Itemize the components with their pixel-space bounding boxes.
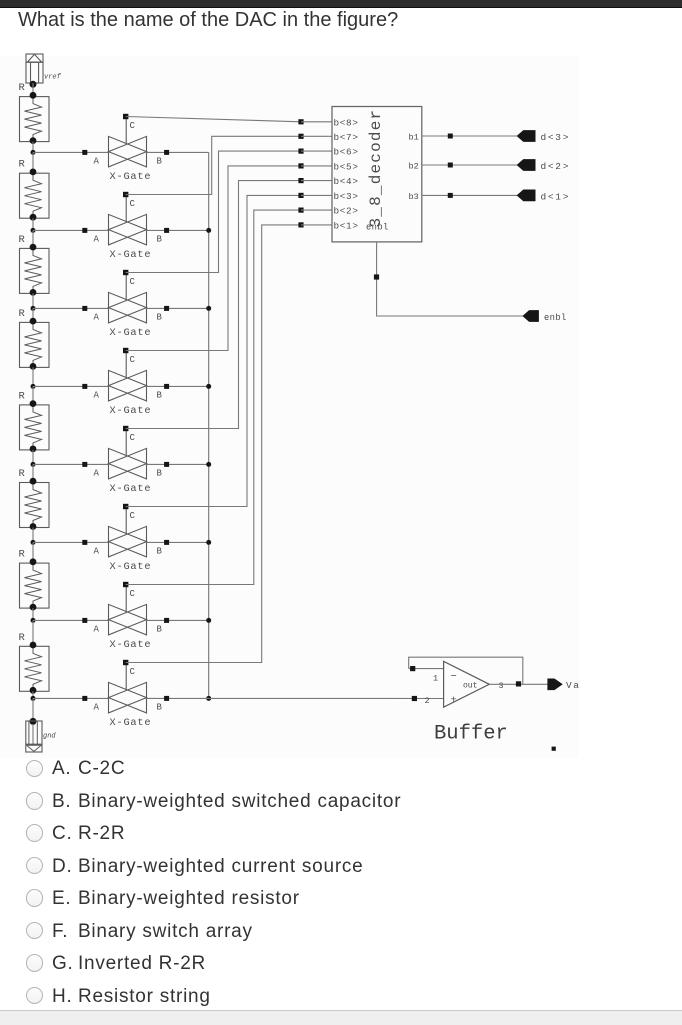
wire b2 <box>422 164 518 166</box>
wire C4 to b<5> <box>126 166 301 351</box>
wire feedback <box>409 657 523 684</box>
wire C7 to b<2> <box>126 210 301 584</box>
wire <box>32 450 34 465</box>
wire C8 to b<1> <box>126 225 301 663</box>
svg-text:d<2>: d<2> <box>541 161 571 172</box>
svg-text:R: R <box>19 308 26 320</box>
svg-text:b3: b3 <box>409 192 419 202</box>
svg-text:B: B <box>157 156 163 166</box>
svg-text:b<1>: b<1> <box>334 221 359 232</box>
svg-text:A: A <box>94 468 100 478</box>
svg-text:X-Gate: X-Gate <box>110 405 152 417</box>
ground <box>26 718 57 752</box>
resistor R1 <box>19 82 50 144</box>
svg-text:R: R <box>19 82 26 94</box>
junction <box>206 228 211 233</box>
svg-text:R: R <box>19 234 26 246</box>
svg-text:b<2>: b<2> <box>334 206 359 217</box>
junction <box>82 462 87 467</box>
svg-text:d<1>: d<1> <box>541 192 571 203</box>
svg-text:R: R <box>19 468 26 480</box>
resistor R5 <box>19 390 50 452</box>
pin enbl <box>523 311 538 322</box>
wire <box>301 209 332 211</box>
wire <box>32 218 34 230</box>
svg-text:3: 3 <box>499 681 504 691</box>
pin C2 <box>123 192 128 197</box>
svg-text:X-Gate: X-Gate <box>110 171 152 183</box>
wire C2 to b<7> <box>126 136 301 194</box>
junction <box>206 696 211 701</box>
wire A tap7 <box>33 619 109 621</box>
svg-text:X-Gate: X-Gate <box>110 561 152 573</box>
op-amp U2 <box>425 661 504 707</box>
junction <box>164 540 169 545</box>
wire out <box>489 683 548 685</box>
wire <box>32 542 34 563</box>
wire A tap5 <box>33 463 109 465</box>
x-gate XG8 <box>94 663 163 729</box>
wire C6 to b<3> <box>126 195 301 506</box>
pin d&lt;3&gt; <box>517 131 535 142</box>
svg-text:A: A <box>94 624 100 634</box>
wire <box>32 608 34 620</box>
svg-text:C: C <box>130 355 136 365</box>
svg-text:Buffer: Buffer <box>434 723 508 746</box>
junction <box>164 696 169 701</box>
wire <box>32 464 34 482</box>
pin C4 <box>123 348 128 353</box>
wire A tap6 <box>33 541 109 543</box>
wire A tap4 <box>33 385 109 387</box>
node vref <box>30 81 37 88</box>
svg-text:X-Gate: X-Gate <box>110 483 152 495</box>
junction <box>516 681 521 686</box>
wire <box>301 224 332 226</box>
wire to op-amp + <box>147 697 444 699</box>
junction <box>82 540 87 545</box>
svg-text:1: 1 <box>433 674 438 684</box>
junction <box>206 618 211 623</box>
junction <box>82 228 87 233</box>
node tap2 <box>31 228 36 233</box>
wire C5 to b<4> <box>126 181 301 429</box>
svg-text:C: C <box>130 121 136 131</box>
wire B2 <box>147 229 209 231</box>
svg-text:X-Gate: X-Gate <box>110 717 152 729</box>
x-gate XG5 <box>94 429 163 495</box>
pin C5 <box>123 426 128 431</box>
wire B4 <box>147 385 209 387</box>
junction <box>164 228 169 233</box>
wire B5 <box>147 463 209 465</box>
junction <box>298 208 303 213</box>
svg-text:X-Gate: X-Gate <box>110 639 152 651</box>
bottom bar <box>0 1010 682 1025</box>
node tap5 <box>31 462 36 467</box>
node tap6 <box>31 540 36 545</box>
junction <box>206 384 211 389</box>
node tap1 <box>31 150 36 155</box>
junction <box>206 540 211 545</box>
decoder U1 3_8_decoder <box>332 107 422 242</box>
svg-text:b<7>: b<7> <box>334 132 359 143</box>
svg-text:A: A <box>94 390 100 400</box>
top bar <box>0 0 682 8</box>
svg-text:B: B <box>157 234 163 244</box>
junction <box>412 696 417 701</box>
question <box>18 9 398 32</box>
junction <box>298 163 303 168</box>
x-gate XG2 <box>94 195 163 261</box>
wire <box>301 180 332 182</box>
wire <box>32 83 34 97</box>
resistor R8 <box>19 632 50 694</box>
node tap8 <box>31 696 36 701</box>
svg-text:b<8>: b<8> <box>334 117 359 128</box>
wire <box>32 230 34 248</box>
svg-text:enbl: enbl <box>544 313 567 323</box>
pin d&lt;1&gt; <box>517 190 535 201</box>
svg-text:B: B <box>157 702 163 712</box>
node tap7 <box>31 618 36 623</box>
svg-text:R: R <box>19 159 26 171</box>
node tap4 <box>31 384 36 389</box>
wire <box>32 152 34 173</box>
x-gate XG6 <box>94 507 163 573</box>
svg-text:Va: Va <box>566 680 580 691</box>
svg-text:B: B <box>157 546 163 556</box>
junction <box>298 193 303 198</box>
x-gate XG4 <box>94 351 163 417</box>
svg-text:b<4>: b<4> <box>334 176 359 187</box>
node tap3 <box>31 306 36 311</box>
svg-text:B: B <box>157 390 163 400</box>
pin d&lt;2&gt; <box>517 160 535 171</box>
svg-text:3_8_decoder: 3_8_decoder <box>367 109 385 228</box>
x-gate XG7 <box>94 585 163 651</box>
junction <box>298 119 303 124</box>
wire <box>32 142 34 153</box>
junction <box>82 306 87 311</box>
svg-text:B: B <box>157 468 163 478</box>
wire <box>32 367 34 386</box>
wire <box>32 620 34 646</box>
pin Va <box>548 679 562 690</box>
wire <box>32 691 34 698</box>
wire B7 <box>147 619 209 621</box>
svg-text:A: A <box>94 702 100 712</box>
svg-text:C: C <box>130 667 136 677</box>
svg-text:2: 2 <box>425 696 430 706</box>
junction <box>164 462 169 467</box>
svg-text:out: out <box>463 682 477 691</box>
wire C3 to b<6> <box>126 151 301 272</box>
svg-text:b1: b1 <box>409 133 419 143</box>
junction <box>206 462 211 467</box>
resistor R6 <box>19 468 50 530</box>
junction <box>206 306 211 311</box>
svg-text:A: A <box>94 312 100 322</box>
resistor R7 <box>19 549 50 611</box>
junction <box>298 222 303 227</box>
stray pin mark <box>552 747 556 751</box>
wire <box>301 135 332 137</box>
wire output bus <box>208 152 210 698</box>
resistor R3 <box>19 234 50 296</box>
resistor R2 <box>19 159 50 221</box>
pin C8 <box>123 660 128 665</box>
svg-text:R: R <box>19 632 26 644</box>
svg-text:X-Gate: X-Gate <box>110 327 152 339</box>
junction <box>374 274 379 279</box>
svg-text:d<3>: d<3> <box>541 132 571 143</box>
svg-text:b2: b2 <box>409 162 419 172</box>
svg-text:C: C <box>130 589 136 599</box>
svg-text:R: R <box>19 390 26 402</box>
wire <box>301 194 332 196</box>
junction <box>448 134 453 139</box>
pin C3 <box>123 270 128 275</box>
junction <box>164 150 169 155</box>
junction <box>82 618 87 623</box>
wire <box>32 698 34 721</box>
svg-text:C: C <box>130 199 136 209</box>
svg-text:C: C <box>130 511 136 521</box>
wire B1 <box>147 151 209 153</box>
wire <box>301 121 332 123</box>
svg-text:X-Gate: X-Gate <box>110 249 152 261</box>
wire A tap8 <box>33 697 109 699</box>
junction <box>82 384 87 389</box>
wire <box>301 165 332 167</box>
x-gate XG1 <box>94 117 163 183</box>
svg-text:C: C <box>130 433 136 443</box>
wire b3 <box>422 194 518 196</box>
junction <box>448 193 453 198</box>
wire b1 <box>422 135 518 137</box>
pin C1 <box>123 114 128 119</box>
wire B6 <box>147 541 209 543</box>
junction <box>164 618 169 623</box>
junction <box>164 384 169 389</box>
junction <box>164 306 169 311</box>
svg-text:vref: vref <box>44 74 62 82</box>
wire enbl <box>377 242 524 316</box>
pin C7 <box>123 582 128 587</box>
wire <box>32 528 34 543</box>
pin C6 <box>123 504 128 509</box>
svg-text:A: A <box>94 156 100 166</box>
svg-text:R: R <box>19 549 26 561</box>
voltage source vref <box>26 54 62 83</box>
junction <box>298 178 303 183</box>
wire <box>32 293 34 308</box>
junction <box>82 696 87 701</box>
wire A tap2 <box>33 229 109 231</box>
svg-text:−: − <box>451 671 457 683</box>
wire <box>32 386 34 405</box>
wire B3 <box>147 307 209 309</box>
wire A tap1 <box>33 151 109 153</box>
junction <box>448 163 453 168</box>
junction <box>298 149 303 154</box>
svg-text:b<5>: b<5> <box>334 162 359 173</box>
svg-text:A: A <box>94 234 100 244</box>
junction <box>82 150 87 155</box>
wire <box>301 150 332 152</box>
junction <box>410 666 415 671</box>
wire op-amp - stub <box>409 668 444 670</box>
x-gate XG3 <box>94 273 163 339</box>
wire C1 to b<8> <box>126 117 301 122</box>
svg-text:B: B <box>157 312 163 322</box>
svg-text:b<3>: b<3> <box>334 191 359 202</box>
svg-text:C: C <box>130 277 136 287</box>
resistor R4 <box>19 308 50 370</box>
wire A tap3 <box>33 307 109 309</box>
wire <box>32 308 34 322</box>
junction <box>298 134 303 139</box>
svg-text:b<6>: b<6> <box>334 147 359 158</box>
svg-text:A: A <box>94 546 100 556</box>
svg-text:enbl: enbl <box>366 223 389 233</box>
svg-text:gnd: gnd <box>43 733 56 741</box>
svg-text:+: + <box>451 695 457 707</box>
svg-text:B: B <box>157 624 163 634</box>
schematic background <box>0 56 579 758</box>
